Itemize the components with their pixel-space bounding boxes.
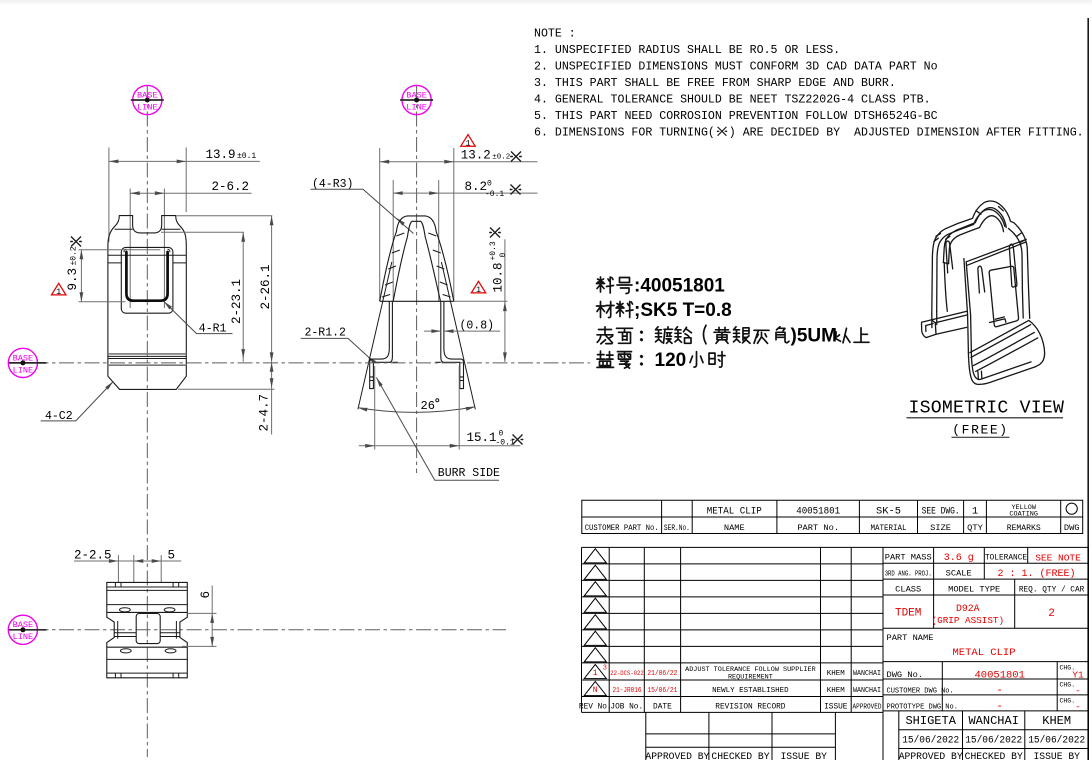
svg-text:21/06/22: 21/06/22 bbox=[647, 670, 677, 678]
dim 2-26.1 bbox=[177, 216, 273, 362]
svg-text:KHEM: KHEM bbox=[827, 687, 846, 695]
svg-text:REQ. QTY / CAR: REQ. QTY / CAR bbox=[1019, 586, 1085, 594]
center tab bbox=[136, 614, 160, 644]
right region grid bbox=[883, 547, 1088, 760]
svg-text:JOB No.: JOB No. bbox=[610, 703, 643, 711]
svg-text:ISSUE: ISSUE bbox=[824, 703, 848, 711]
svg-text:REMARKS: REMARKS bbox=[1007, 523, 1041, 533]
front band end cap and interior edge bbox=[943, 263, 948, 312]
svg-text:CHG.: CHG. bbox=[1060, 698, 1076, 705]
svg-text:15/06/2022: 15/06/2022 bbox=[1028, 734, 1085, 746]
dim 15.1 0/-0.1 bbox=[359, 366, 521, 450]
svg-text:-0.1: -0.1 bbox=[485, 190, 504, 199]
dim 6 bbox=[182, 586, 217, 647]
body outline bbox=[108, 216, 186, 390]
svg-text:-: - bbox=[1075, 702, 1081, 713]
U cutout in plate bbox=[989, 266, 1018, 326]
svg-text:ISOMETRIC VIEW: ISOMETRIC VIEW bbox=[909, 399, 1065, 419]
svg-text:2: 2 bbox=[1048, 608, 1055, 620]
svg-text:-: - bbox=[996, 701, 1003, 713]
svg-text:3RD ANG. PROJ.: 3RD ANG. PROJ. bbox=[885, 570, 932, 578]
star in note line 6 bbox=[717, 127, 727, 136]
dome inner arch bbox=[393, 221, 440, 301]
svg-text:REV No.: REV No. bbox=[579, 703, 612, 711]
flange right bulge bbox=[1029, 320, 1045, 366]
BASE LINE symbol side view bbox=[400, 85, 433, 114]
vertical centerline front view bbox=[146, 86, 148, 757]
svg-text:0: 0 bbox=[487, 179, 492, 188]
svg-text:REVISION RECORD: REVISION RECORD bbox=[715, 703, 786, 711]
svg-text:D92A: D92A bbox=[956, 603, 980, 614]
svg-text:21-JR016: 21-JR016 bbox=[613, 687, 642, 695]
outer silhouette: left edge, back hump, right shoulder, right edge bbox=[932, 201, 1030, 318]
svg-text:5. THIS PART NEED CORROSION PR: 5. THIS PART NEED CORROSION PREVENTION F… bbox=[534, 110, 938, 123]
BASE LINE symbol front view bbox=[131, 85, 164, 114]
revision flag triangles bbox=[584, 549, 606, 696]
svg-text:APPROVED BY: APPROVED BY bbox=[899, 751, 963, 760]
svg-text:DWG No.: DWG No. bbox=[887, 670, 924, 680]
front band of arch (outer) bbox=[943, 208, 1006, 263]
svg-text:3. THIS PART SHALL BE FREE FRO: 3. THIS PART SHALL BE FREE FROM SHARP ED… bbox=[534, 77, 896, 90]
svg-text:CHECKED BY: CHECKED BY bbox=[965, 751, 1023, 760]
svg-text:15/06/2022: 15/06/2022 bbox=[965, 734, 1022, 746]
bend hatch ticks bbox=[934, 207, 1025, 243]
svg-text:6. DIMENSIONS FOR TURNING( ): 6. DIMENSIONS FOR TURNING( ) ARE DECIDED… bbox=[534, 127, 1084, 140]
svg-text:(0.8): (0.8) bbox=[460, 320, 495, 333]
top flange bbox=[107, 582, 188, 612]
svg-text:SEE NOTE: SEE NOTE bbox=[1035, 553, 1081, 564]
left band lower edges to foot bbox=[932, 312, 937, 328]
svg-text:WANCHAI: WANCHAI bbox=[853, 687, 881, 695]
svg-text:SEE DWG.: SEE DWG. bbox=[922, 506, 960, 517]
svg-text:APPROVED BY: APPROVED BY bbox=[645, 751, 709, 760]
left leg and foot bbox=[370, 301, 398, 388]
svg-text:BURR SIDE: BURR SIDE bbox=[438, 467, 500, 480]
svg-text:NOTE :: NOTE : bbox=[534, 28, 576, 41]
svg-text:26: 26 bbox=[421, 399, 435, 413]
svg-text:PART MASS: PART MASS bbox=[885, 553, 932, 563]
svg-text:SCALE: SCALE bbox=[946, 568, 972, 578]
line2: cai liao ;SK5 T=0.8 bbox=[597, 302, 634, 318]
svg-text:SHIGETA: SHIGETA bbox=[905, 714, 956, 728]
svg-text:;SK5 T=0.8: ;SK5 T=0.8 bbox=[634, 300, 732, 321]
svg-text:CUSTOMER PART No.: CUSTOMER PART No. bbox=[585, 524, 659, 533]
svg-text:2-6.2: 2-6.2 bbox=[212, 180, 250, 194]
svg-text:METAL CLIP: METAL CLIP bbox=[707, 506, 762, 518]
flange crease lines bbox=[970, 320, 1038, 371]
right wedge slot bbox=[1009, 244, 1017, 287]
svg-text:WANCHAI: WANCHAI bbox=[968, 714, 1018, 728]
arch hatch ticks bbox=[382, 233, 451, 297]
rail through cutout bbox=[990, 317, 1006, 323]
svg-text:QTY: QTY bbox=[967, 523, 983, 533]
dim 2-23.1 bbox=[161, 232, 244, 362]
foot rails bbox=[931, 311, 967, 334]
svg-text:6: 6 bbox=[199, 591, 213, 599]
window thick U tab bbox=[126, 252, 167, 301]
svg-text:1. UNSPECIFIED RADIUS SHALL BE: 1. UNSPECIFIED RADIUS SHALL BE RO.5 OR L… bbox=[534, 44, 840, 57]
dim 10.8 +0.3/0 bbox=[504, 239, 506, 362]
svg-text:13.9: 13.9 bbox=[206, 148, 236, 162]
dim 2-6.2 bbox=[130, 189, 251, 309]
svg-text:-: - bbox=[1075, 686, 1081, 697]
svg-text:DWG: DWG bbox=[1064, 523, 1080, 533]
J-hook bottom left of plate bbox=[968, 353, 1035, 385]
26 deg slant lines bbox=[358, 262, 475, 409]
tab fold lines bbox=[108, 229, 186, 263]
svg-text:13.2: 13.2 bbox=[461, 149, 491, 163]
plate left edge pair bbox=[964, 259, 972, 355]
svg-text:2-4.7: 2-4.7 bbox=[258, 394, 272, 432]
svg-text:±0.1: ±0.1 bbox=[237, 152, 256, 161]
svg-text:15/06/21: 15/06/21 bbox=[647, 687, 677, 695]
center wedge slot bbox=[978, 266, 985, 293]
svg-text:ISSUE BY: ISSUE BY bbox=[1033, 751, 1080, 760]
svg-text:5: 5 bbox=[168, 548, 176, 562]
right leg and foot bbox=[435, 301, 463, 388]
bend lines near baseline bbox=[108, 354, 186, 365]
svg-text:APPROVED: APPROVED bbox=[853, 703, 882, 711]
svg-text:LINE: LINE bbox=[137, 102, 158, 112]
horizontal baseline (bottom view) bbox=[8, 629, 506, 631]
svg-text:(GRIP ASSIST): (GRIP ASSIST) bbox=[932, 615, 1005, 626]
svg-text:3.6 g: 3.6 g bbox=[944, 553, 974, 564]
svg-text:Y1: Y1 bbox=[1072, 670, 1084, 681]
svg-text:PROTOTYPE DWG No.: PROTOTYPE DWG No. bbox=[887, 704, 958, 712]
line4: yan wu : 120 xiao shi bbox=[597, 351, 725, 368]
svg-text:PART NAME: PART NAME bbox=[887, 633, 934, 643]
svg-text:1: 1 bbox=[972, 506, 978, 518]
dim 2-4.7 bbox=[178, 362, 275, 435]
window outer bbox=[121, 247, 173, 313]
svg-text:MATERIAL: MATERIAL bbox=[871, 523, 907, 533]
svg-text:0: 0 bbox=[499, 430, 504, 439]
left foot channel end face bbox=[922, 320, 937, 338]
svg-text:120: 120 bbox=[655, 350, 687, 371]
svg-text:15.1: 15.1 bbox=[467, 431, 497, 445]
horizontal baseline (front view) bbox=[8, 362, 590, 364]
svg-text:2-23.1: 2-23.1 bbox=[230, 279, 244, 324]
left wedge slot bbox=[946, 241, 953, 273]
svg-text:KHEM: KHEM bbox=[1042, 714, 1071, 728]
BASE LINE symbol left-bottom bbox=[8, 615, 46, 644]
svg-text:TDEM: TDEM bbox=[895, 608, 921, 620]
svg-text:8.2: 8.2 bbox=[465, 180, 488, 194]
svg-text:KHEM: KHEM bbox=[827, 670, 846, 678]
svg-text:2-R1.2: 2-R1.2 bbox=[305, 327, 347, 340]
dome outer arch bbox=[380, 216, 454, 301]
plate top edge double bbox=[966, 239, 1026, 265]
line3: biao mian : du ge ( huang yin hui se )5UM yi shang bbox=[597, 325, 869, 344]
svg-text:N: N bbox=[593, 686, 598, 695]
svg-text:(FREE): (FREE) bbox=[952, 423, 1008, 438]
svg-text:)5UM: )5UM bbox=[791, 326, 837, 347]
svg-text:9.3: 9.3 bbox=[66, 268, 80, 291]
dim 13.9 ±0.1 bbox=[109, 148, 260, 243]
right block labels bbox=[885, 553, 1085, 595]
right block red values bbox=[895, 553, 1084, 714]
vertical centerline side view bbox=[416, 86, 418, 473]
svg-text:SIZE: SIZE bbox=[930, 523, 951, 533]
svg-text:LINE: LINE bbox=[13, 632, 34, 642]
svg-text:+0.3: +0.3 bbox=[489, 241, 498, 260]
inner band edge (back) bbox=[937, 209, 1024, 318]
svg-text:40051801: 40051801 bbox=[974, 670, 1024, 682]
svg-text:22-DCS-022: 22-DCS-022 bbox=[610, 670, 644, 678]
26 deg arc bbox=[358, 407, 475, 413]
left region grid bbox=[582, 547, 1089, 712]
svg-text:SK-5: SK-5 bbox=[876, 506, 901, 518]
dim 13.2 ±0.2 bbox=[380, 148, 538, 301]
waist bbox=[107, 612, 188, 647]
svg-text:ISSUE BY: ISSUE BY bbox=[780, 751, 827, 760]
svg-text:TOLERANCE: TOLERANCE bbox=[985, 555, 1027, 563]
svg-text:-: - bbox=[996, 685, 1003, 697]
notes text block bbox=[534, 28, 1084, 140]
svg-text:15/06/2022: 15/06/2022 bbox=[902, 734, 959, 746]
BASE LINE symbol left-front bbox=[8, 348, 46, 377]
svg-text:SER.No.: SER.No. bbox=[664, 523, 690, 533]
dim (0.8) bbox=[424, 330, 500, 332]
svg-text:LINE: LINE bbox=[406, 102, 427, 112]
svg-text:METAL CLIP: METAL CLIP bbox=[952, 647, 1015, 659]
svg-text:COATING: COATING bbox=[1009, 511, 1038, 519]
svg-text:REQUIREMENT: REQUIREMENT bbox=[728, 674, 773, 682]
svg-text:CUSTOMER DWG No.: CUSTOMER DWG No. bbox=[887, 688, 954, 696]
signature grids bbox=[899, 711, 1089, 760]
svg-text:LINE: LINE bbox=[13, 365, 34, 375]
svg-text:2. UNSPECIFIED DIMENSIONS MUST: 2. UNSPECIFIED DIMENSIONS MUST CONFORM 3… bbox=[534, 61, 938, 74]
shoulder line bbox=[380, 300, 454, 302]
svg-text:2 : 1. (FREE): 2 : 1. (FREE) bbox=[997, 568, 1075, 580]
svg-text:MODEL TYPE: MODEL TYPE bbox=[948, 584, 1000, 594]
svg-text:10.8: 10.8 bbox=[492, 262, 506, 292]
line1: liao hao :40051801 bbox=[597, 277, 633, 294]
svg-text:CHECKED BY: CHECKED BY bbox=[711, 751, 769, 760]
svg-text:40051801: 40051801 bbox=[796, 506, 840, 518]
dim 8.2 0/-0.1 bbox=[393, 180, 537, 301]
page right border bbox=[1087, 18, 1089, 760]
svg-text:0: 0 bbox=[499, 253, 508, 258]
bottom flange bbox=[107, 647, 188, 678]
svg-text:2-26.1: 2-26.1 bbox=[259, 264, 273, 309]
svg-text:±0.2: ±0.2 bbox=[70, 246, 79, 265]
front band of arch (inner) bbox=[949, 216, 1004, 264]
svg-text:DATE: DATE bbox=[653, 703, 672, 711]
svg-text:4. GENERAL TOLERANCE SHOULD BE: 4. GENERAL TOLERANCE SHOULD BE NEET TSZ2… bbox=[534, 94, 931, 107]
svg-text:±0.2: ±0.2 bbox=[492, 153, 510, 161]
svg-text:WANCHAI: WANCHAI bbox=[853, 670, 881, 678]
svg-text:NAME: NAME bbox=[724, 523, 745, 533]
svg-text:3: 3 bbox=[603, 665, 607, 673]
dim 9.3 ±0.2 bbox=[79, 250, 161, 302]
svg-text:CLASS: CLASS bbox=[895, 584, 921, 594]
svg-text::40051801: :40051801 bbox=[634, 275, 725, 296]
svg-text:1: 1 bbox=[593, 669, 598, 678]
hook tip stub bbox=[978, 371, 982, 380]
svg-text:PART No.: PART No. bbox=[797, 523, 839, 533]
svg-text:CHG.: CHG. bbox=[1060, 682, 1076, 689]
svg-text:NEWLY ESTABLISHED: NEWLY ESTABLISHED bbox=[712, 687, 789, 695]
signature texts bbox=[645, 714, 1085, 760]
svg-text:2-2.5: 2-2.5 bbox=[74, 548, 112, 562]
revision row texts bbox=[579, 665, 882, 712]
